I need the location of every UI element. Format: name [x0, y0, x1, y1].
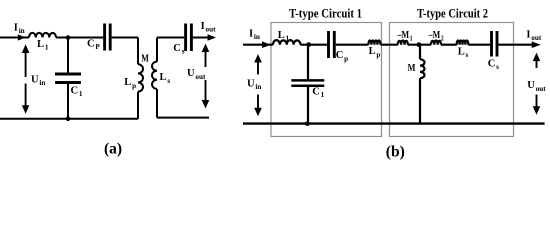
- svg-text:(b): (b): [386, 144, 405, 161]
- svg-text:T-type Circuit 1: T-type Circuit 1: [289, 6, 362, 20]
- svg-text:T-type Circuit 2: T-type Circuit 2: [417, 6, 488, 20]
- svg-text:(a): (a): [104, 141, 122, 158]
- svg-text:M: M: [408, 63, 416, 74]
- svg-text:M: M: [141, 53, 149, 64]
